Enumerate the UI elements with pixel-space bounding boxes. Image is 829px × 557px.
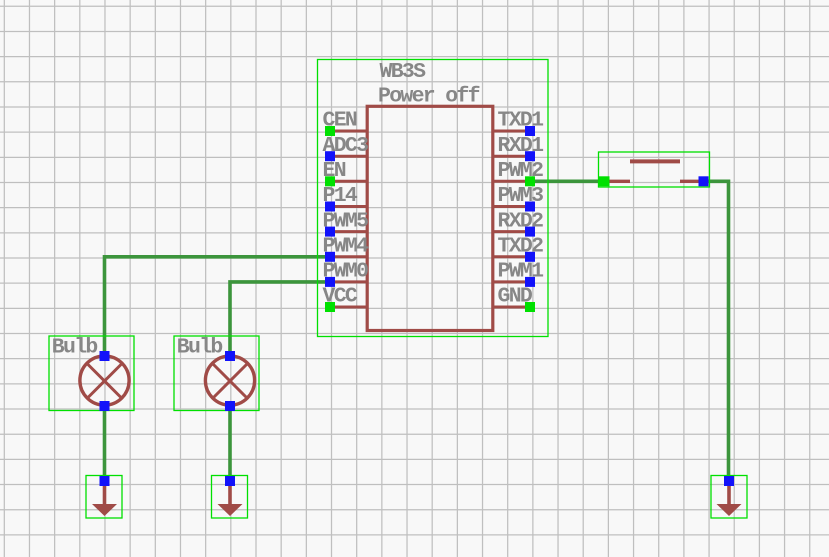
wire Bulb1 bottom to ground 1 xyxy=(103,406,107,481)
svg-text:Bulb: Bulb xyxy=(52,335,98,359)
ground 3 symbol xyxy=(717,484,742,516)
pin PWM3 xyxy=(492,184,543,211)
svg-text:RXD1: RXD1 xyxy=(498,134,544,158)
pin PWM4 xyxy=(323,235,370,262)
pin P14 xyxy=(323,184,369,211)
pin EN xyxy=(323,159,369,186)
svg-text:PWM1: PWM1 xyxy=(498,260,544,284)
svg-text:PWM2: PWM2 xyxy=(498,159,544,183)
switch S1 pin 2 xyxy=(699,176,709,186)
svg-text:WB3S: WB3S xyxy=(380,60,427,84)
bulb LA2 symbol xyxy=(205,356,254,405)
switch S1 symbol xyxy=(604,161,704,181)
bulb LA2 selection box xyxy=(174,336,259,411)
svg-text:TXD2: TXD2 xyxy=(498,235,544,259)
bulb LA1 selection box xyxy=(49,336,134,411)
IC U1 WB3S body xyxy=(367,106,493,330)
wire switch right pin to ground 3 xyxy=(704,181,729,481)
pin RXD2 xyxy=(492,209,543,236)
ground 3 selection box xyxy=(711,476,747,519)
bulb LA1 symbol xyxy=(80,356,129,405)
pin PWM1 xyxy=(492,260,543,287)
svg-text:Bulb: Bulb xyxy=(177,335,223,359)
bulb LA2 pin 1 xyxy=(225,351,235,361)
ground 3 pin xyxy=(724,476,734,486)
bulb LA1 name label xyxy=(52,335,98,359)
pin PWM5 xyxy=(323,209,369,236)
IC U1 value label Power off xyxy=(378,85,480,109)
svg-text:PWM3: PWM3 xyxy=(498,184,544,208)
pin PWM0 xyxy=(323,260,369,287)
bulb LA1 pin 1 xyxy=(100,351,110,361)
pin GND xyxy=(492,285,535,312)
ground 1 pin xyxy=(100,476,110,486)
wire PWM2 to switch left pin xyxy=(530,180,604,184)
ground 1 symbol xyxy=(92,484,117,516)
bulb LA1 pin 2 xyxy=(100,401,110,411)
bulb LA2 pin 2 xyxy=(225,401,235,411)
pin RXD1 xyxy=(492,134,543,161)
pin ADC3 xyxy=(323,134,369,161)
ground 1 selection box xyxy=(86,476,122,519)
svg-text:TXD1: TXD1 xyxy=(498,109,544,133)
wire net PWM0 to Bulb2 xyxy=(230,282,330,356)
svg-text:RXD2: RXD2 xyxy=(498,209,544,233)
pin VCC xyxy=(323,285,369,312)
pin PWM2 xyxy=(492,159,543,186)
bulb LA2 name label xyxy=(177,335,223,359)
pin TXD1 xyxy=(492,109,543,136)
ground 2 symbol xyxy=(218,484,243,516)
ground 2 selection box xyxy=(212,476,248,519)
wire Bulb2 bottom to ground 2 xyxy=(228,406,232,481)
IC U1 WB3S selection box xyxy=(318,60,549,337)
svg-text:Power off: Power off xyxy=(378,85,480,109)
wire net PWM4 to Bulb1 xyxy=(105,257,331,356)
IC U1 name label WB3S xyxy=(380,60,427,84)
pin TXD2 xyxy=(492,235,543,262)
switch S1 selection box xyxy=(599,152,710,187)
ground 2 pin xyxy=(225,476,235,486)
switch S1 pin 1 xyxy=(599,176,610,186)
pin CEN xyxy=(323,109,369,136)
